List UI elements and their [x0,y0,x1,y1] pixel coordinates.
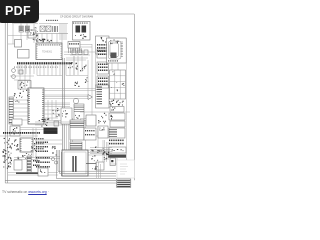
connector CN2 [97,62,109,74]
small box d2 [54,121,59,126]
flyback transformer box [62,150,88,176]
dash rows lower-center [36,142,48,153]
cluster bottom-left edge [3,155,12,168]
resistor group R11 [31,27,38,40]
PDF badge [0,0,39,23]
module N2 [109,113,125,120]
svg-text:CF-20D30 CIRCUIT DIAGRAM: CF-20D30 CIRCUIT DIAGRAM [60,15,93,18]
transformer T2 [25,26,29,32]
module N3 [110,121,125,127]
component specks center [53,108,60,117]
wire bus right of U2 a [44,95,88,98]
module N4 striped [109,128,125,138]
cluster bottom-right of flyback [91,146,107,161]
M2 pin ticks [69,48,82,53]
wire stack to frame [125,111,130,113]
footer note [2,190,49,194]
wire stack right edge [126,63,128,160]
label specks above U1 [36,38,52,42]
wire lower-left [0,128,38,158]
cluster under U3 [18,153,32,159]
wire right-mid [44,89,109,119]
box R22 [28,30,36,38]
dark specks right bundle [101,151,110,156]
box P7 [98,126,108,138]
IF block M2 [68,42,80,49]
pin rows N5 [109,140,124,145]
relay box K11 [40,26,45,32]
wire tuner to grid [112,63,118,70]
svg-text:TDA8361: TDA8361 [42,51,53,54]
wire h under drops [37,75,62,77]
wire h top extended [39,23,68,25]
wire h-bus mid [33,33,68,35]
wire bottom-left h [14,158,38,160]
specks lower-left 2 [31,145,36,155]
dark bar N7 [108,155,126,158]
tuner box V1 [107,38,127,63]
title block table [117,179,131,187]
IC U1 pin number band [17,62,72,64]
wire vertical bundle center-low [67,118,73,152]
dash cols right of U3 [34,138,44,149]
striped module P5 [70,142,82,152]
box Q10 [92,162,104,170]
component cluster left edge [2,138,13,160]
sub IC U6 [18,50,30,59]
wire h y35 [8,35,34,37]
capacitor C81 [51,157,54,160]
vertical ladder Q8 [27,156,31,172]
module N6 [109,147,126,153]
module M6 [74,104,84,122]
connector CN1 [97,49,109,58]
box Q7 [14,160,22,170]
wire bus right of U2 b [44,103,70,106]
wire v left of stack [95,54,97,85]
capacitor C82 [54,161,57,164]
cluster lower-center 2 [52,146,57,155]
module M5 [61,108,72,124]
module N1 [110,107,124,113]
box module P3 [86,115,96,126]
label row under band [14,67,58,68]
pin band lower-left [3,132,40,134]
title block outline [117,160,134,178]
dense cluster center d1 [39,118,50,126]
resistor R31 [19,70,23,74]
vertical bus B1 [63,58,65,160]
main IC U1 TDA8361 [36,43,62,60]
grid table G1 [110,70,126,99]
resistor labels row [46,20,58,21]
specks cluster q1 [68,62,78,70]
dark module D5 [44,128,58,135]
wire verticals under shield [66,56,88,75]
shield box labels [73,23,88,24]
dash rows bottom-left [33,160,40,166]
cluster bottom-center [36,157,50,168]
component box R90 [110,158,117,172]
specks cluster q4 [85,78,88,83]
wire center low [45,121,90,124]
transformer T1 [19,26,23,32]
connector CN3 [97,76,109,88]
wire lower-center bottom [35,157,60,159]
wire bottom-right bundle [97,162,101,178]
relay box K12 [46,26,51,32]
capacitor C32 [12,75,16,79]
box P6 [84,128,96,140]
connector arrow [88,95,93,100]
filter block L3 [18,81,31,90]
wire lower-center h [35,122,75,144]
shield box M1 [73,22,91,41]
dark bar under ladder [16,172,38,174]
border frame [5,14,134,183]
wire singles right of U2 [44,110,60,118]
specks cluster q3 [74,82,80,87]
wire h y44 [8,43,15,45]
box IC07 [10,126,44,136]
wire drops from bus [38,34,62,44]
v bundle right [103,140,108,162]
wire region D3 [84,120,110,160]
U3 pin labels left [14,140,19,151]
bus corner lines [56,150,116,178]
wire verticals center [48,100,56,120]
box above IC07 [12,119,22,125]
wire verticals right of L21 [60,24,66,41]
dark wire y163 [86,163,103,165]
title block text [120,164,128,174]
h bundle right [90,148,112,154]
connector P1 ladder [9,97,13,124]
wire bottom-left low [8,173,58,176]
micro IC U2 [28,88,44,124]
wire ladder to IC [13,100,28,120]
wire top bus [12,23,38,25]
wire v1 [13,22,34,44]
wire drops from band left [18,65,34,74]
capacitor C31 [12,69,16,73]
specks cluster q2 [80,65,87,71]
label specks mid-left [14,87,29,103]
striped module P4 [70,120,84,140]
box Q9 [38,168,48,176]
wire center-right [66,52,95,125]
connector CN4 tall [96,85,110,108]
transistor row TR5 [72,50,88,55]
M2 grid wires [64,44,92,70]
specks lower right-mid [98,113,107,124]
specks right column [109,100,124,106]
IC U3 [20,138,33,152]
wire u1 bottom drops [37,65,70,76]
relay K1 [73,98,78,103]
module M3 [96,36,110,54]
choke bars L21 [53,26,58,32]
regulator IC05 [15,40,22,48]
wire mid-left verticals [10,65,34,88]
